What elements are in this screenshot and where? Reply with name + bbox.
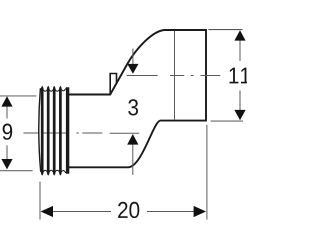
dim 11 line + arrows — [234, 30, 245, 120]
sleeve fin 3 — [53, 86, 55, 175]
label 9 — [3, 124, 13, 140]
dim 9 extension lines — [0, 95, 36, 97]
sleeve fin 2 — [47, 86, 49, 175]
label 3 — [128, 99, 138, 115]
label 11 — [230, 68, 250, 84]
alignment tab — [110, 74, 116, 96]
fitting body outline with S-bend — [69, 30, 207, 167]
dim 9 line + arrows — [1, 96, 12, 169]
outlet socket joint line — [174, 31, 176, 120]
label 20 — [118, 202, 139, 218]
sleeve end cap — [66, 87, 69, 174]
dim 20 extension lines — [39, 182, 41, 220]
sleeve lip valleys top — [43, 88, 66, 91]
dim 11 extension lines — [208, 29, 242, 31]
sleeve fin 4 — [59, 86, 61, 175]
sleeve centerline — [23, 132, 139, 134]
dim 20 line + arrows — [41, 206, 206, 217]
sleeve left edge arc — [39, 88, 41, 172]
sleeve fin 1 — [41, 86, 43, 175]
sleeve — [39, 86, 68, 175]
outlet centerline — [127, 75, 221, 77]
sleeve lip valleys bottom — [43, 170, 66, 173]
dim 3 arrows — [127, 49, 138, 175]
